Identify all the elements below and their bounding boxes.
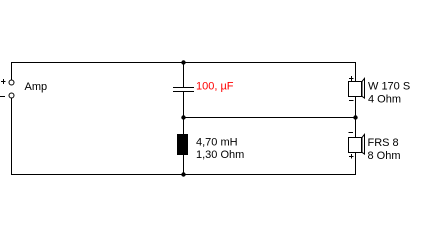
label: speaker1 plus sign <box>349 76 354 81</box>
wire: left vertical lower (- terminal to bottom rail) <box>11 98 12 175</box>
label: speaker2 minus sign <box>349 132 354 133</box>
svg-text:8 Ohm: 8 Ohm <box>368 150 401 162</box>
svg-text:Amp: Amp <box>25 81 48 93</box>
speaker SP1 cone <box>362 78 365 98</box>
svg-text:4,70 mH: 4,70 mH <box>196 137 238 149</box>
junction node speaker branch / middle rail <box>353 115 357 119</box>
node: amp - terminal circle <box>9 93 14 98</box>
label: amp plus sign <box>1 79 6 84</box>
label: amp minus sign <box>0 96 5 97</box>
wire: inductor branch lower <box>183 154 184 175</box>
label: speaker2 plus sign <box>349 154 354 159</box>
wire: capacitor branch upper <box>183 62 184 87</box>
junction node on top rail <box>181 60 185 64</box>
label: speaker1 minus sign <box>349 100 354 101</box>
wire: bottom rail <box>11 174 356 175</box>
junction node on bottom rail <box>181 172 185 176</box>
speaker SP2 box <box>348 137 362 153</box>
wire: middle rail <box>183 117 356 118</box>
svg-text:1,30 Ohm: 1,30 Ohm <box>196 149 244 161</box>
wire: speaker1 to middle rail <box>355 96 356 117</box>
wire: middle rail to speaker 2 <box>355 118 356 137</box>
svg-text:FRS 8: FRS 8 <box>368 137 399 149</box>
svg-text:4 Ohm: 4 Ohm <box>368 94 401 106</box>
capacitor C1 top plate <box>173 87 194 88</box>
svg-text:100, µF: 100, µF <box>196 81 234 93</box>
wire: right vertical to speaker 1 <box>355 62 356 81</box>
speaker SP2 cone <box>362 134 365 154</box>
junction node cap/inductor/middle rail <box>181 115 185 119</box>
wire: left vertical upper (top rail to + terminal) <box>11 62 12 80</box>
wire: inductor branch upper <box>183 117 184 134</box>
capacitor C1 bottom plate <box>173 91 194 92</box>
wire: speaker2 to bottom rail <box>355 152 356 175</box>
inductor L1 body <box>177 134 188 155</box>
node: amp + terminal circle <box>9 80 14 85</box>
svg-text:W 170 S: W 170 S <box>368 81 410 93</box>
wire: top rail <box>11 62 356 63</box>
wire: capacitor branch lower <box>183 92 184 118</box>
speaker SP1 box <box>348 81 362 97</box>
